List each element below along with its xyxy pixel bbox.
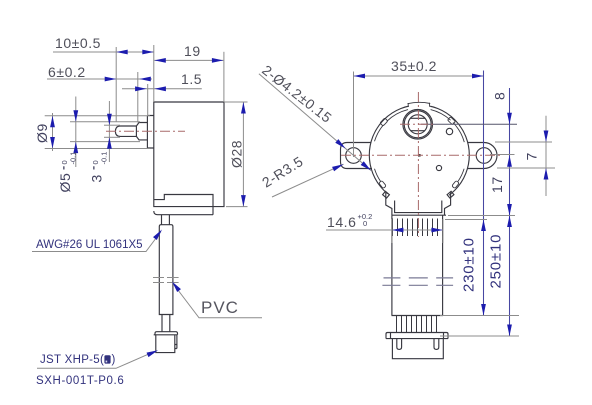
svg-text:1.5: 1.5: [181, 71, 202, 87]
svg-text:SXH-001T-P0.6: SXH-001T-P0.6: [36, 375, 124, 387]
svg-text:Ø9: Ø9: [34, 123, 50, 143]
svg-text:7: 7: [524, 152, 540, 160]
svg-text:6±0.2: 6±0.2: [48, 64, 86, 80]
svg-text:8: 8: [492, 92, 508, 100]
svg-text:-0.1: -0.1: [69, 152, 78, 165]
svg-text:PVC: PVC: [201, 298, 239, 317]
svg-text:10±0.5: 10±0.5: [55, 35, 101, 51]
svg-text:3: 3: [89, 174, 105, 182]
svg-text:250±10: 250±10: [488, 234, 505, 289]
svg-text:230±10: 230±10: [460, 237, 477, 292]
svg-text:Ø5: Ø5: [57, 173, 73, 193]
svg-text:-0.1: -0.1: [100, 152, 109, 165]
svg-text:17: 17: [489, 176, 505, 193]
svg-text:0: 0: [363, 219, 367, 228]
svg-text:Ø28: Ø28: [229, 140, 245, 168]
svg-text:35±0.2: 35±0.2: [391, 58, 437, 74]
svg-text:AWG#26 UL 1061X5: AWG#26 UL 1061X5: [36, 239, 143, 251]
svg-text:JST XHP-5(ø): JST XHP-5(ø): [40, 354, 116, 366]
svg-text:14.6: 14.6: [327, 214, 356, 230]
svg-text:19: 19: [184, 43, 201, 59]
